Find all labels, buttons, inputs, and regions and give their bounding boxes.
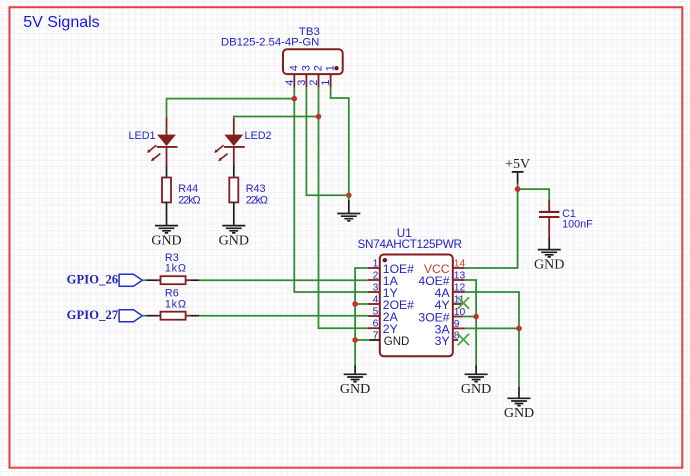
svg-text:R44: R44 [178, 183, 198, 195]
svg-text:DB125-2.54-4P-GN: DB125-2.54-4P-GN [221, 36, 320, 48]
U1 pin 2 [368, 271, 399, 288]
svg-text:1: 1 [320, 80, 332, 86]
svg-text:100nF: 100nF [562, 219, 593, 231]
svg-text:GND: GND [340, 382, 370, 397]
junction +5V [515, 186, 521, 192]
svg-text:1kΩ: 1kΩ [165, 298, 186, 310]
connector TB3 labels [221, 26, 320, 48]
svg-text:GND: GND [461, 382, 491, 397]
svg-text:GND: GND [219, 233, 249, 248]
svg-text:5V Signals: 5V Signals [23, 14, 100, 31]
svg-text:SN74AHCT125PWR: SN74AHCT125PWR [358, 238, 463, 251]
U1 pin 12 [435, 283, 466, 300]
svg-text:4: 4 [284, 80, 296, 86]
junction TB3 gnd net [346, 193, 352, 199]
svg-text:2: 2 [308, 80, 320, 86]
power +5V [505, 157, 530, 184]
wire +5V down to U1 pin14 [465, 189, 518, 268]
svg-text:GND: GND [384, 336, 410, 348]
junction pin10 [473, 314, 479, 320]
wire +5V to C1 [518, 189, 550, 199]
svg-text:22kΩ: 22kΩ [246, 194, 268, 206]
svg-text:2: 2 [373, 271, 379, 282]
U1 pin 4 [368, 295, 414, 312]
resistor R3 [161, 276, 186, 284]
wire +5V to junction [517, 184, 519, 190]
wire branch to LED1 [167, 99, 295, 118]
wire TB3.3 down to gnd junction [306, 87, 348, 195]
svg-text:3: 3 [296, 80, 308, 86]
net label GPIO_27 [67, 308, 143, 322]
U1 pin1 origin dot [383, 258, 387, 262]
svg-text:LED2: LED2 [245, 130, 272, 142]
wire U1 pin10 to pin13 net [463, 316, 476, 318]
svg-text:5: 5 [373, 307, 379, 318]
svg-text:4: 4 [288, 65, 300, 71]
wire R6 to U1 pin5 (2A) [186, 315, 191, 317]
wire U1 pin12 (4A) to gnd [465, 292, 519, 387]
svg-text:1kΩ: 1kΩ [165, 263, 186, 275]
U1 pin 3 [368, 283, 398, 300]
junction pin9/12 [516, 326, 522, 332]
wire U1 pin9 (3A) to pin12 net [465, 327, 519, 329]
U1 pin 11 [435, 295, 465, 312]
junction TB3.4/LED1 [292, 96, 298, 102]
U1 pin 6 [368, 319, 398, 337]
U1 pin 5 [368, 307, 399, 324]
svg-text:14: 14 [454, 259, 466, 270]
wire U1 pin13 (4OE#) to gnd [465, 280, 477, 365]
wire GPIO_27 to R6 [142, 315, 146, 317]
ground (TB3 pins 1,3) [337, 195, 360, 221]
wire OE tie (pins 1,4,7) to gnd [355, 268, 368, 365]
U1 pin 1 [368, 259, 414, 276]
svg-text:12: 12 [454, 283, 466, 294]
wire TB3.4 down to U1 pin3 (1Y) [294, 87, 368, 292]
TB3 pin1 origin dot [334, 66, 338, 70]
resistor R6 [161, 312, 186, 320]
svg-text:LED1: LED1 [129, 130, 156, 142]
svg-text:R43: R43 [246, 183, 266, 195]
junction pin7 row [352, 337, 358, 343]
svg-text:4: 4 [373, 295, 379, 306]
wire R43 to gnd [233, 202, 235, 225]
svg-text:GND: GND [151, 233, 181, 248]
LED D1 [147, 117, 178, 164]
connector TB3 body [283, 49, 343, 74]
wire branch to LED2 [234, 117, 319, 119]
TB3 pin 2 stub [308, 65, 325, 87]
op-amp U1 body [380, 255, 453, 357]
wire LED2 to R43 [233, 165, 235, 178]
svg-text:GND: GND [534, 257, 564, 272]
ground (U1 pin13/10) [461, 365, 491, 397]
U1 pin 7 [370, 331, 410, 348]
ground (U1 pin12/9) [504, 387, 534, 421]
ground (C1) [534, 250, 564, 273]
net label GPIO_26 [67, 273, 143, 287]
U1 pin 14 [424, 259, 466, 276]
svg-text:GND: GND [504, 406, 534, 421]
LED D2 [214, 119, 245, 165]
no-connect X pin 11 [458, 297, 469, 308]
capacitor C1 [539, 200, 559, 238]
svg-text:3Y: 3Y [435, 334, 450, 348]
svg-text:+5V: +5V [505, 157, 530, 172]
U1 pin 9 [435, 319, 465, 336]
svg-text:22kΩ: 22kΩ [178, 194, 200, 206]
ground (U1 OE/GND) [340, 365, 370, 397]
U1 pin 13 [418, 271, 465, 288]
svg-text:2: 2 [313, 65, 325, 71]
TB3 pin 1 stub [320, 65, 337, 87]
resistor R43 [229, 178, 238, 203]
ground (R43) [219, 226, 249, 249]
wire C1 to gnd [548, 237, 550, 250]
svg-text:2Y: 2Y [383, 322, 398, 336]
ground (R44) [151, 226, 181, 249]
svg-text:GPIO_26: GPIO_26 [67, 273, 119, 287]
U1 pin 8 [435, 331, 460, 348]
wire R44 to gnd [166, 202, 168, 225]
TB3 pin 3 stub [296, 65, 313, 87]
wire TB3.1 to gnd junction [331, 87, 349, 195]
U1 pin 10 [418, 307, 465, 325]
wire GPIO_26 to R3 [142, 279, 146, 281]
svg-text:6: 6 [373, 319, 379, 330]
svg-text:7: 7 [373, 331, 379, 342]
U1 labels [358, 227, 463, 251]
junction pin4 row [352, 301, 358, 307]
svg-text:1: 1 [373, 259, 379, 270]
TB3 pin 4 stub [284, 65, 301, 87]
wire R3 to U1 pin2 (1A) [186, 279, 191, 281]
svg-text:GPIO_27: GPIO_27 [67, 308, 119, 322]
svg-text:13: 13 [454, 271, 466, 282]
junction TB3.2/LED2 [316, 114, 322, 120]
svg-text:9: 9 [454, 319, 460, 330]
wire TB3.2 down to U1 pin6 (2Y) [319, 87, 368, 328]
no-connect X pin 8 [458, 334, 469, 345]
svg-text:3: 3 [300, 65, 312, 71]
wire LED1 to R44 [166, 165, 168, 178]
svg-text:3: 3 [373, 283, 379, 294]
resistor R44 [162, 178, 171, 203]
